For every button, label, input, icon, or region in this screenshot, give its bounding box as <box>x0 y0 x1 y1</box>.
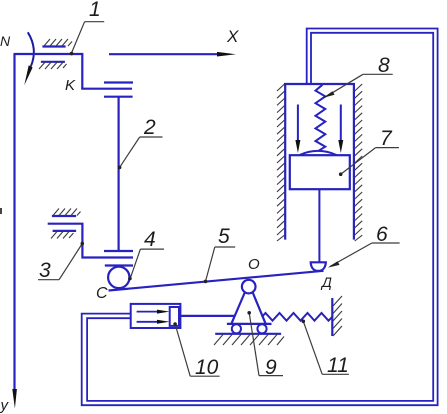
link 1 rail at K <box>81 88 132 90</box>
ground line under rollers <box>215 333 281 335</box>
cylinder 8 right wall <box>353 83 355 240</box>
blue arrow right in cylinder 8 <box>340 105 342 142</box>
leader 6 arrowhead <box>328 261 340 267</box>
leader 5 <box>206 247 236 281</box>
carriage bar <box>227 323 272 325</box>
svg-text:10: 10 <box>195 356 219 379</box>
foot at point Д <box>311 262 326 271</box>
wire frame: y-axis vertical line <box>13 54 15 390</box>
flow line lower <box>137 321 158 323</box>
leader 4 <box>130 249 164 279</box>
leader 9 underline <box>259 375 283 377</box>
svg-text:K: K <box>65 77 76 94</box>
leader 11 <box>303 321 322 374</box>
slider bottom upper plate <box>104 250 133 252</box>
spring 8 <box>316 85 326 151</box>
svg-text:4: 4 <box>144 228 156 251</box>
guide 3 upper line <box>52 215 76 217</box>
piston 7 body <box>290 155 350 189</box>
roller right <box>257 324 266 333</box>
guide upper line of prismatic joint 1 <box>42 45 65 47</box>
y-axis arrowhead <box>12 389 17 409</box>
pivot O circle <box>242 280 256 294</box>
blue arrow left head <box>295 140 300 153</box>
pipe outer run <box>82 29 438 406</box>
svg-text:8: 8 <box>378 54 390 77</box>
leader 8 arrowhead <box>323 91 335 98</box>
rotation arrowhead <box>24 65 32 85</box>
svg-text:X: X <box>226 27 239 46</box>
leader 4 dot <box>128 277 132 281</box>
lever 5 from C to Д <box>109 271 324 291</box>
blue arrow right head <box>338 140 343 153</box>
roller C circle <box>108 267 129 288</box>
flow line upper <box>137 311 158 313</box>
leader 10 underline <box>190 375 219 377</box>
flow arrowhead upper <box>157 310 170 314</box>
slider 2 upper plate (top joint) <box>104 81 133 83</box>
piston rod of cylinder 8 <box>318 189 320 262</box>
leader 1 <box>71 22 104 54</box>
svg-text:6: 6 <box>376 223 388 246</box>
leader 5 dot <box>204 280 208 284</box>
X axis arrowhead <box>217 52 236 57</box>
guide lower line of prismatic joint 1 <box>41 61 65 63</box>
hatch above upper guide <box>44 39 72 46</box>
piston 7 dome <box>300 151 337 155</box>
rotation arc N <box>28 32 34 66</box>
leader 7 <box>341 148 399 174</box>
leader 2 dot <box>118 166 122 170</box>
leader 11 underline <box>322 373 349 375</box>
leader 3 <box>38 244 82 280</box>
link 1 horizontal rod <box>14 53 83 55</box>
svg-text:9: 9 <box>265 356 277 379</box>
leader 9 <box>249 313 259 376</box>
piston of cylinder 10 <box>170 307 179 326</box>
hatch left wall <box>277 84 285 241</box>
leader 10 dot <box>173 322 177 326</box>
support 9 triangle <box>232 292 266 323</box>
hatch right wall <box>355 84 363 241</box>
spring 11 <box>262 313 332 321</box>
X axis line <box>109 53 219 55</box>
leader 9 dot <box>247 311 251 315</box>
svg-text:Д: Д <box>320 274 332 290</box>
leader 6 <box>330 243 400 267</box>
link 3 rail <box>48 224 133 258</box>
svg-text:3: 3 <box>39 259 51 282</box>
leader 3 dot <box>81 242 85 246</box>
leader 8 <box>325 74 393 97</box>
leader 7 dot <box>339 172 343 176</box>
leader 1 dot <box>70 52 74 56</box>
hatch above guide 3 <box>53 209 81 216</box>
link 1 vertical step K <box>81 53 83 89</box>
ground hatching <box>214 335 284 346</box>
hatch below guide 3 <box>51 232 74 239</box>
edge mark left <box>0 208 2 214</box>
cylinder 8 top line <box>284 83 355 85</box>
cylinder 8 left wall <box>284 83 286 240</box>
piston rod of cylinder 10 <box>179 315 234 317</box>
leader 10 <box>175 324 190 376</box>
svg-text:1: 1 <box>89 0 101 21</box>
svg-text:7: 7 <box>380 127 393 150</box>
svg-text:5: 5 <box>218 225 230 248</box>
svg-text:C: C <box>96 285 108 302</box>
svg-text:N: N <box>0 33 11 49</box>
leader 2 <box>120 137 163 167</box>
leader 11 dot <box>302 320 306 324</box>
svg-text:11: 11 <box>327 354 349 377</box>
cylinder 10 body <box>131 304 181 328</box>
slider 2 lower plate (top joint) <box>104 96 133 98</box>
pipe inner run <box>87 33 433 401</box>
hatch right of wall 11 <box>333 296 342 336</box>
spring 11 wall <box>331 298 333 336</box>
svg-text:O: O <box>248 256 260 273</box>
link 2 vertical rod <box>117 97 119 251</box>
guide 3 lower line <box>53 230 77 232</box>
roller left <box>232 324 241 333</box>
svg-text:2: 2 <box>143 116 156 139</box>
slider bottom lower plate <box>105 264 133 266</box>
blue arrow left in cylinder 8 <box>297 105 299 142</box>
flow arrowhead lower <box>157 320 170 324</box>
hatch below lower guide <box>39 62 67 69</box>
